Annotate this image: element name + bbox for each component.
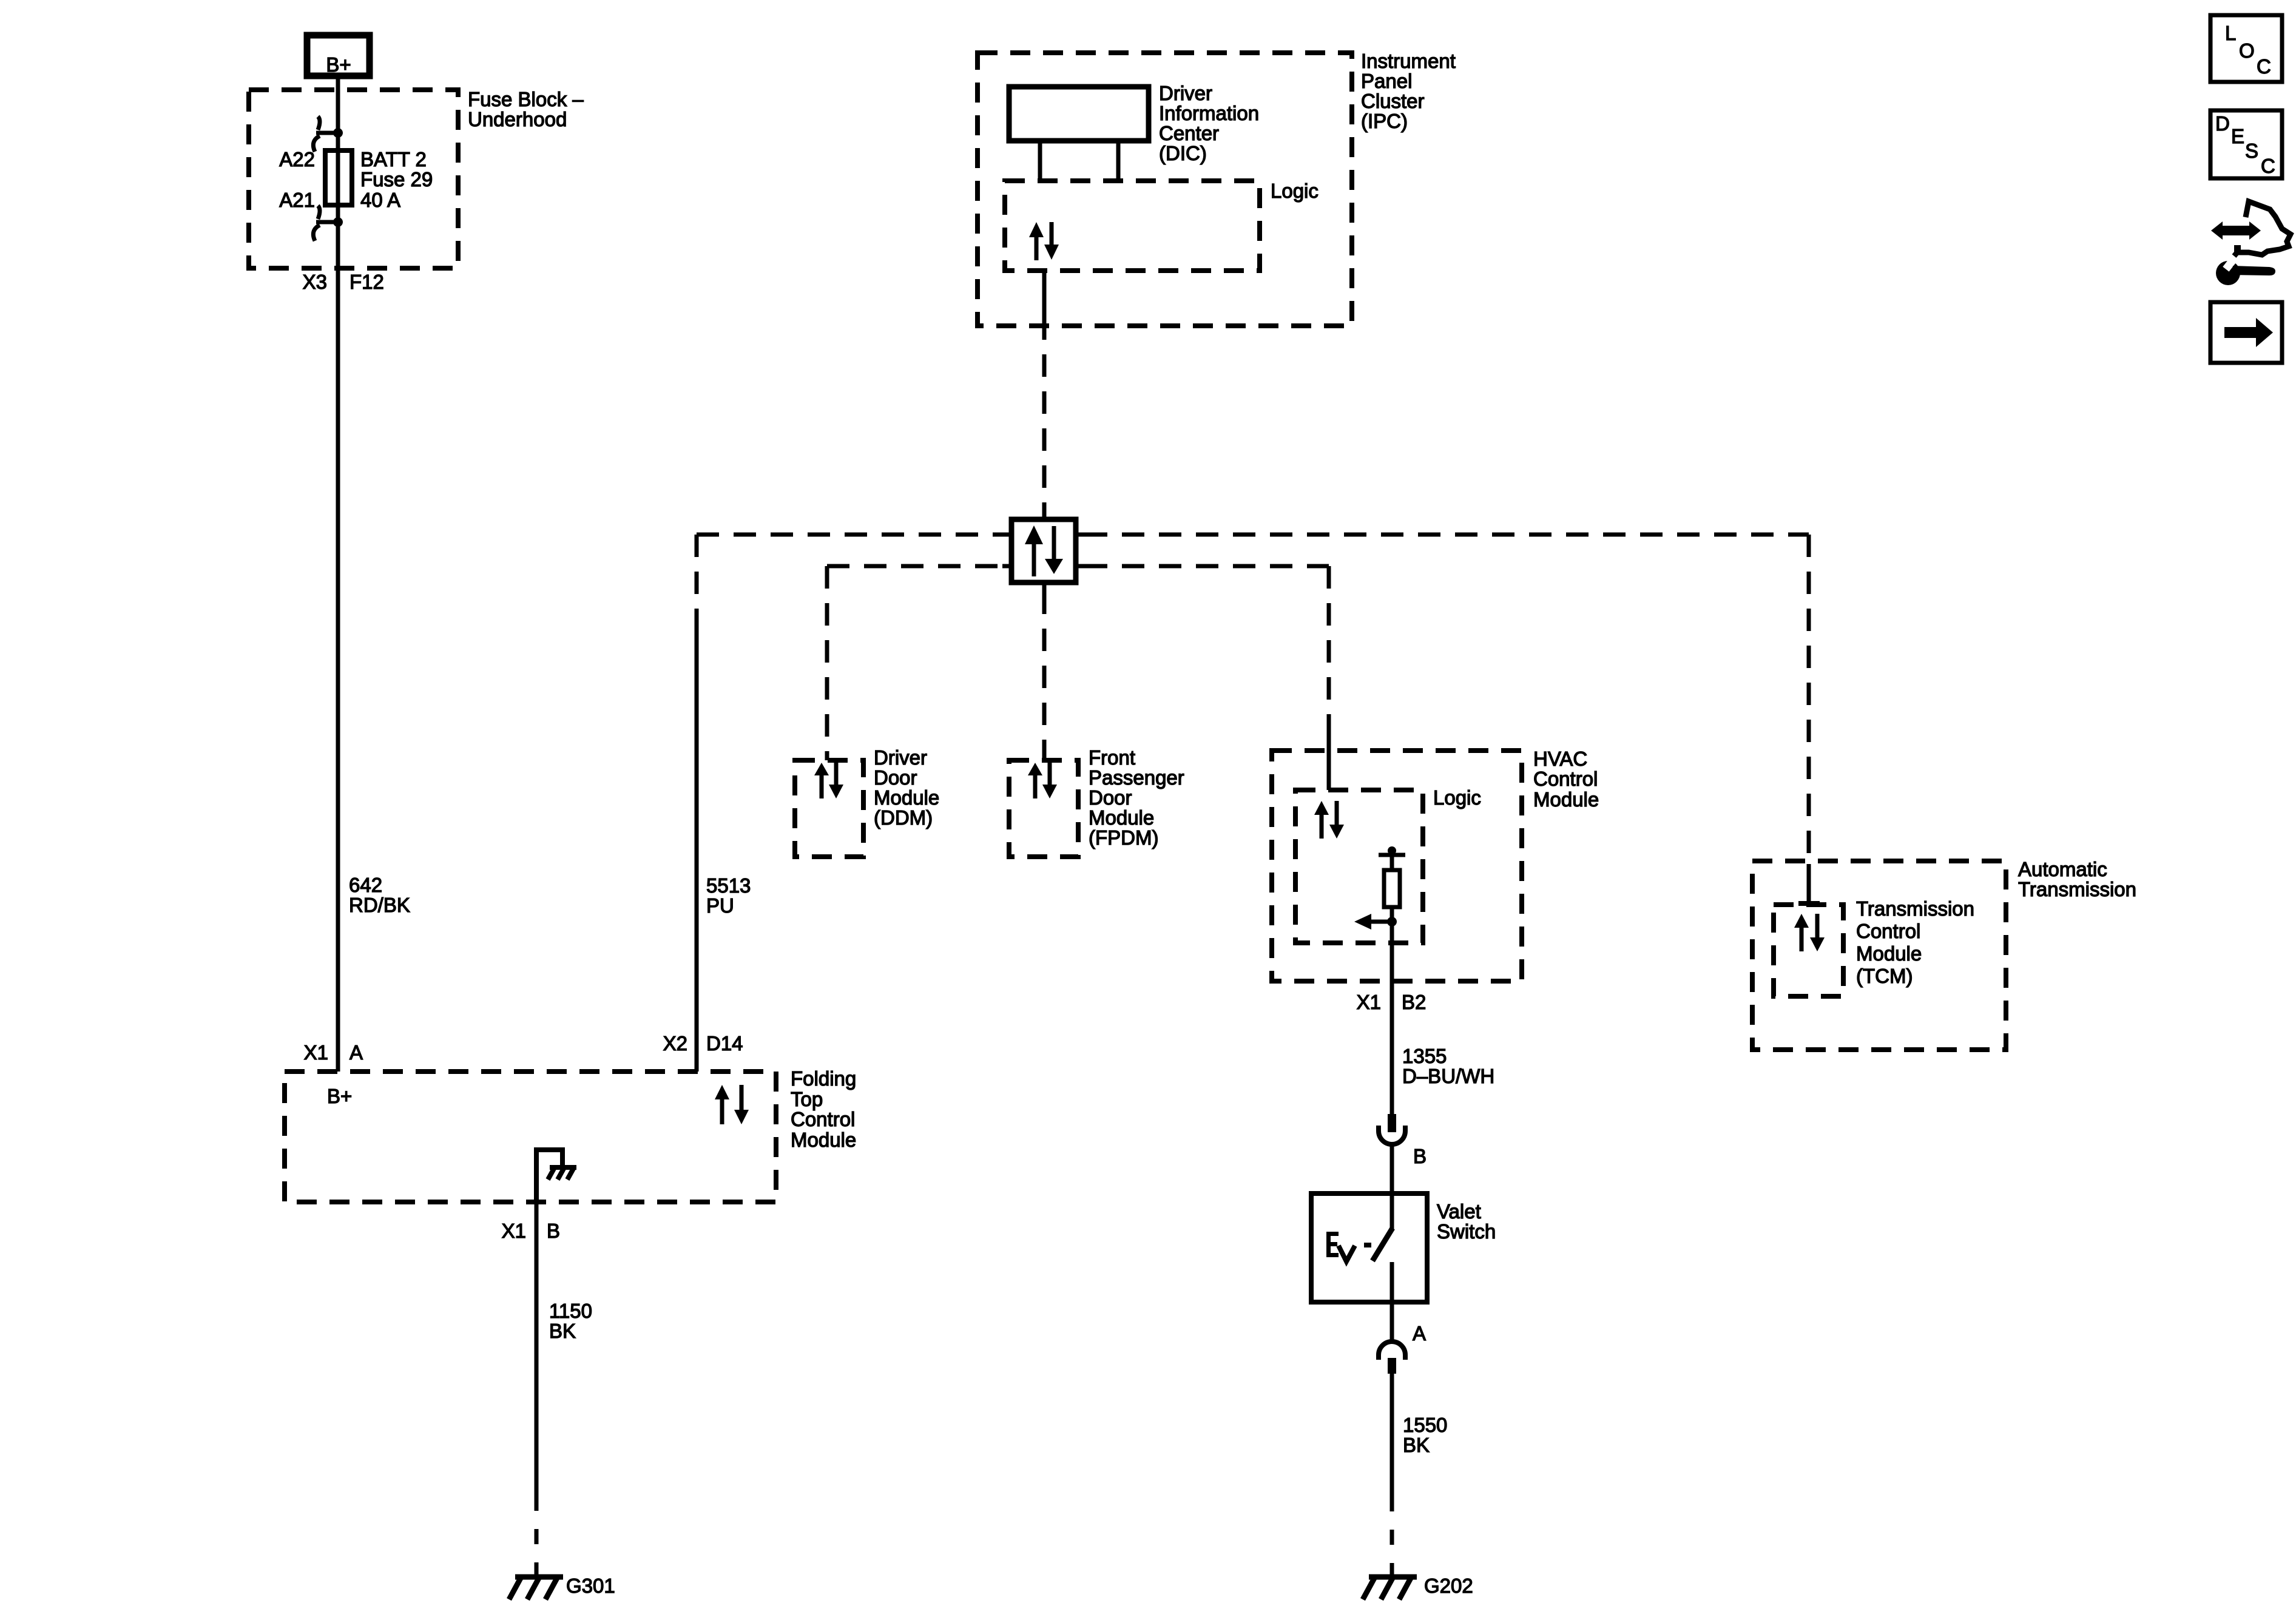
svg-text:Control: Control bbox=[1856, 920, 1920, 942]
svg-text:(TCM): (TCM) bbox=[1856, 965, 1913, 987]
svg-text:Fuse Block –: Fuse Block – bbox=[468, 88, 584, 110]
svg-text:(DDM): (DDM) bbox=[874, 806, 933, 829]
ground G202 bbox=[1363, 1577, 1417, 1599]
label: Valet Switch bbox=[1437, 1200, 1496, 1243]
svg-text:Top: Top bbox=[791, 1088, 823, 1110]
svg-text:O: O bbox=[2239, 39, 2255, 62]
svg-text:Instrument: Instrument bbox=[1361, 50, 1456, 72]
front passenger door module dashed box bbox=[1009, 760, 1078, 857]
wire DIC stub right bbox=[1116, 141, 1121, 181]
svg-text:Module: Module bbox=[791, 1129, 856, 1151]
wire label 1550 BK bbox=[1403, 1414, 1447, 1456]
svg-text:D14: D14 bbox=[706, 1032, 743, 1055]
svg-text:Module: Module bbox=[1856, 942, 1922, 965]
wire: class-2 serial data bus upper right bbox=[1085, 533, 1809, 537]
svg-text:RD/BK: RD/BK bbox=[349, 894, 410, 916]
driver information center (DIC) box bbox=[1009, 87, 1149, 141]
serial data arrows inside TCM bbox=[1794, 914, 1825, 951]
svg-text:Switch: Switch bbox=[1437, 1220, 1496, 1243]
svg-text:1355: 1355 bbox=[1402, 1045, 1447, 1067]
svg-text:D–BU/WH: D–BU/WH bbox=[1402, 1065, 1494, 1087]
wire to G202 dashed bbox=[1390, 1496, 1394, 1576]
svg-text:B: B bbox=[547, 1220, 560, 1242]
svg-text:G301: G301 bbox=[566, 1575, 615, 1597]
fuse 29 element bbox=[325, 150, 352, 205]
in-line connector pin A (male) bbox=[1388, 1358, 1396, 1374]
svg-text:Door: Door bbox=[1089, 786, 1132, 809]
svg-text:C: C bbox=[2257, 55, 2271, 78]
automatic transmission dashed box bbox=[1752, 861, 2006, 1050]
svg-text:Control: Control bbox=[791, 1108, 855, 1130]
HVAC control module dashed box bbox=[1272, 751, 1522, 981]
wire: class-2 serial data bus lower left bbox=[827, 564, 1002, 569]
ground G301 bbox=[509, 1577, 563, 1599]
wire: HVAC X1 B2 output 1355 bbox=[1390, 922, 1394, 1114]
node junction dot with arrow to logic bbox=[1354, 914, 1397, 930]
wire: class-2 serial data bus upper left bbox=[697, 533, 1002, 537]
svg-text:G202: G202 bbox=[1424, 1575, 1473, 1597]
svg-text:B2: B2 bbox=[1402, 991, 1426, 1013]
wire: bus drop to DDM bbox=[825, 566, 829, 760]
svg-text:X1: X1 bbox=[304, 1041, 328, 1064]
hand with wrench icon bbox=[2211, 201, 2291, 285]
wire label 1355 D-BU/WH bbox=[1402, 1045, 1494, 1087]
label: HVAC Control Module bbox=[1533, 748, 1599, 811]
pull-up supply tap inside HVAC logic bbox=[1379, 846, 1405, 870]
svg-text:B: B bbox=[1413, 1145, 1427, 1167]
svg-text:Driver: Driver bbox=[1159, 82, 1212, 104]
driver door module dashed box bbox=[795, 760, 863, 857]
svg-text:Front: Front bbox=[1089, 746, 1135, 769]
serial data junction box bbox=[1011, 519, 1076, 582]
in-line connector socket B (female) bbox=[1379, 1126, 1405, 1144]
wire: valet switch to connector A bbox=[1390, 1302, 1394, 1343]
svg-text:Module: Module bbox=[1533, 788, 1599, 811]
valet switch box bbox=[1311, 1193, 1427, 1302]
wire DIC stub left bbox=[1038, 141, 1042, 181]
in-line connector pin B (male) bbox=[1388, 1114, 1396, 1132]
svg-text:X3: X3 bbox=[303, 271, 327, 293]
pin labels X2 D14 bbox=[663, 1032, 743, 1055]
label: Transmission Control Module (TCM) bbox=[1856, 897, 1974, 987]
svg-text:Transmission: Transmission bbox=[1856, 897, 1974, 920]
fuse block - underhood dashed box bbox=[249, 90, 458, 268]
wire: connector B to valet switch bbox=[1390, 1146, 1394, 1193]
svg-text:Door: Door bbox=[874, 766, 917, 789]
svg-text:Passenger: Passenger bbox=[1089, 766, 1184, 789]
svg-text:HVAC: HVAC bbox=[1533, 748, 1587, 770]
svg-text:Folding: Folding bbox=[791, 1067, 856, 1090]
svg-text:Panel: Panel bbox=[1361, 70, 1412, 92]
svg-text:642: 642 bbox=[349, 874, 382, 896]
svg-text:Fuse 29: Fuse 29 bbox=[360, 168, 433, 191]
forward arrow icon box bbox=[2210, 302, 2282, 363]
pin labels X1 B2 bbox=[1357, 991, 1427, 1013]
svg-text:Transmission: Transmission bbox=[2018, 878, 2136, 900]
serial data arrows inside junction box bbox=[1025, 525, 1063, 576]
svg-text:Logic: Logic bbox=[1433, 786, 1481, 809]
wire: bus drop to 5513 PU, dashed then solid bbox=[695, 535, 699, 612]
serial box stubs bbox=[1002, 510, 1085, 592]
svg-text:BATT 2: BATT 2 bbox=[360, 148, 427, 170]
wire: class-2 serial data bus lower right bbox=[1085, 564, 1329, 569]
svg-text:BK: BK bbox=[1403, 1434, 1430, 1456]
in-line connector socket A (female) bbox=[1379, 1342, 1405, 1360]
folding top control module dashed box bbox=[285, 1072, 776, 1202]
wire: resistor to junction bbox=[1390, 907, 1394, 922]
svg-text:S: S bbox=[2245, 140, 2258, 162]
svg-text:Control: Control bbox=[1533, 768, 1598, 790]
serial data arrows inside DDM bbox=[814, 762, 843, 798]
serial data arrows inside IPC logic bbox=[1029, 222, 1059, 260]
label: Fuse Block - Underhood bbox=[468, 88, 584, 130]
svg-text:(FPDM): (FPDM) bbox=[1089, 826, 1158, 849]
svg-text:A: A bbox=[1413, 1322, 1426, 1345]
svg-text:PU: PU bbox=[706, 894, 734, 917]
IPC logic dashed box bbox=[1005, 181, 1260, 271]
instrument panel cluster (IPC) dashed box bbox=[977, 53, 1352, 326]
svg-text:Module: Module bbox=[874, 786, 939, 809]
svg-text:1550: 1550 bbox=[1403, 1414, 1447, 1436]
svg-text:Underhood: Underhood bbox=[468, 108, 567, 130]
serial data arrows inside FPDM bbox=[1028, 762, 1057, 798]
wire label 5513 PU bbox=[706, 874, 751, 917]
svg-text:Information: Information bbox=[1159, 102, 1259, 124]
wire label 642 RD/BK bbox=[349, 874, 410, 916]
svg-text:L: L bbox=[2225, 22, 2236, 44]
label: Front Passenger Door Module (FPDM) bbox=[1089, 746, 1184, 849]
svg-text:Center: Center bbox=[1159, 122, 1219, 144]
node A22 junction dot bbox=[333, 128, 343, 138]
svg-text:B+: B+ bbox=[326, 53, 351, 76]
clip symbol at A22 bbox=[313, 116, 338, 152]
ground symbol inside folding top module bbox=[536, 1150, 576, 1202]
wire 1150 BK solid bbox=[535, 1202, 539, 1496]
wire: bus drop to TCM, dashed then solid bbox=[1807, 535, 1811, 864]
node A21 junction dot bbox=[333, 217, 343, 227]
svg-text:A21: A21 bbox=[279, 189, 315, 211]
label: Instrument Panel Cluster (IPC) bbox=[1361, 50, 1456, 132]
svg-text:Cluster: Cluster bbox=[1361, 90, 1425, 112]
svg-text:(IPC): (IPC) bbox=[1361, 110, 1408, 132]
wire 1550 BK solid bbox=[1390, 1374, 1394, 1496]
svg-text:Automatic: Automatic bbox=[2018, 858, 2107, 880]
svg-text:A: A bbox=[349, 1041, 363, 1064]
svg-text:D: D bbox=[2215, 112, 2230, 135]
label: Driver Door Module (DDM) bbox=[874, 746, 939, 829]
label: BATT 2 Fuse 29 40 A bbox=[360, 148, 433, 211]
TCM terminal bar bbox=[1798, 901, 1820, 906]
svg-text:5513: 5513 bbox=[706, 874, 751, 897]
svg-text:A22: A22 bbox=[279, 148, 315, 170]
B+ battery feed symbol bbox=[307, 35, 370, 76]
label: Automatic Transmission bbox=[2018, 858, 2136, 900]
svg-text:BK: BK bbox=[549, 1320, 576, 1342]
svg-text:1150: 1150 bbox=[549, 1300, 592, 1322]
serial data arrows inside HVAC logic bbox=[1314, 801, 1344, 839]
wire to G301 dashed bbox=[535, 1496, 539, 1576]
wire: bus drop to HVAC, dashed then solid bbox=[1327, 566, 1331, 735]
svg-text:Logic: Logic bbox=[1271, 180, 1319, 202]
svg-text:40 A: 40 A bbox=[360, 189, 400, 211]
pin labels X1 A (folding top power input) bbox=[304, 1041, 363, 1064]
pin labels X3 F12 bbox=[303, 271, 384, 293]
wire: IPC logic to serial junction, solid then dashed bbox=[1042, 271, 1047, 317]
svg-text:Driver: Driver bbox=[874, 746, 927, 769]
label: Folding Top Control Module bbox=[791, 1067, 856, 1151]
wire: B+ to fuse (642 circuit) bbox=[336, 79, 340, 1072]
svg-text:E: E bbox=[2231, 125, 2244, 147]
wire label 1150 BK bbox=[549, 1300, 592, 1342]
transmission control module dashed box bbox=[1774, 905, 1843, 996]
svg-text:(DIC): (DIC) bbox=[1159, 142, 1207, 164]
svg-text:B+: B+ bbox=[327, 1085, 352, 1107]
pin labels X1 B (folding top ground) bbox=[502, 1220, 560, 1242]
svg-text:X2: X2 bbox=[663, 1032, 687, 1055]
HVAC logic dashed box bbox=[1295, 790, 1423, 943]
serial data arrows at X2 D14 inside module bbox=[715, 1085, 749, 1124]
wire: serial box drop to FPDM bbox=[1042, 592, 1047, 760]
svg-text:X1: X1 bbox=[1357, 991, 1381, 1013]
svg-text:C: C bbox=[2261, 155, 2275, 177]
svg-text:X1: X1 bbox=[502, 1220, 526, 1242]
valet switch internals: key symbol and blade bbox=[1326, 1193, 1393, 1302]
svg-text:Module: Module bbox=[1089, 806, 1154, 829]
clip symbol at A21 bbox=[313, 206, 338, 241]
svg-text:Valet: Valet bbox=[1437, 1200, 1481, 1223]
svg-text:F12: F12 bbox=[349, 271, 384, 293]
label: Driver Information Center (DIC) bbox=[1159, 82, 1259, 164]
LOC icon box bbox=[2210, 15, 2282, 82]
resistor (pull-up) inside HVAC logic bbox=[1384, 870, 1400, 907]
DESC icon box bbox=[2210, 110, 2282, 178]
